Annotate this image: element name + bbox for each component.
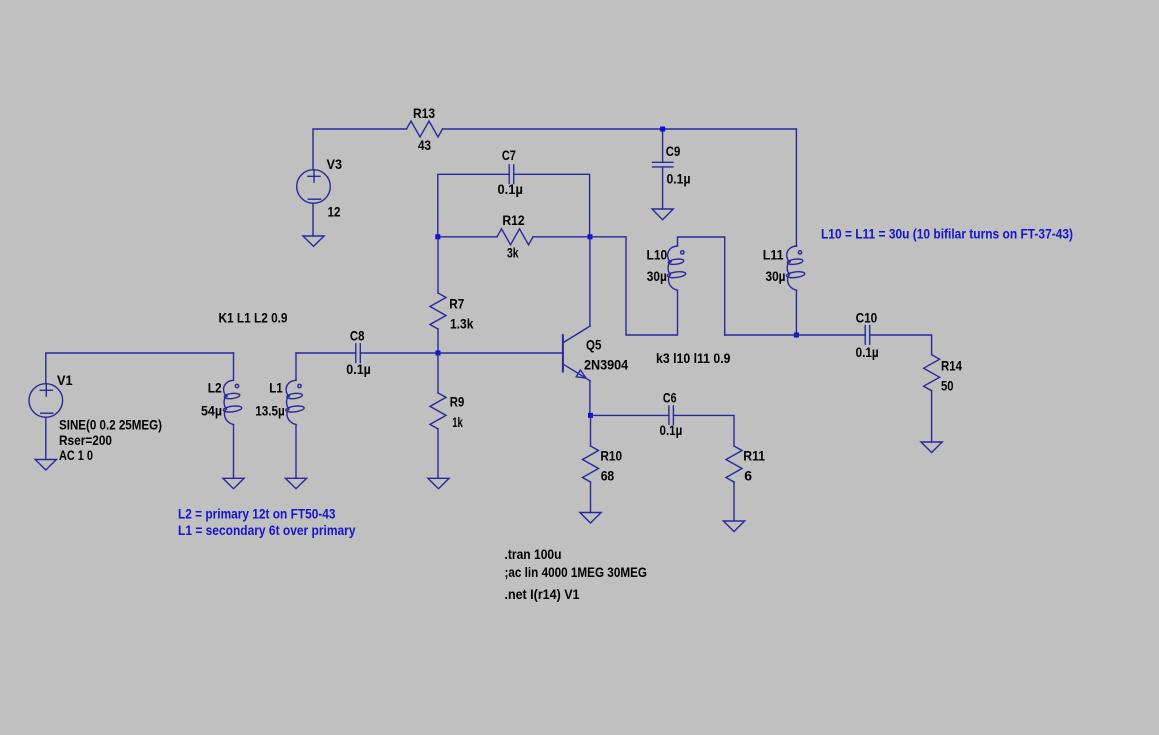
capacitor C10	[865, 326, 870, 345]
svg-text:L2: L2	[208, 380, 222, 396]
wire: base junction to R9	[437, 353, 439, 393]
svg-text:R7: R7	[449, 295, 464, 311]
svg-text:R14: R14	[941, 358, 962, 374]
wire: junction to R12	[438, 236, 497, 238]
wire: L1 to ground	[295, 425, 297, 479]
svg-text:12: 12	[328, 203, 341, 219]
wire: C9 to ground	[662, 167, 664, 209]
ground (V1)	[35, 460, 56, 471]
wire: out bus to C10	[725, 334, 866, 336]
svg-text:L11: L11	[763, 246, 784, 262]
svg-text:C10: C10	[856, 310, 878, 326]
svg-text:SINE(0 0.2 25MEG): SINE(0 0.2 25MEG)	[59, 417, 162, 433]
resistor R12	[497, 229, 533, 245]
resistor R13	[407, 121, 443, 137]
svg-text:L1 = secondary 6t over primary: L1 = secondary 6t over primary	[178, 522, 356, 538]
wire: emitter node to R10	[590, 415, 592, 446]
inductor L11	[786, 246, 805, 290]
wire: C8 to base	[360, 352, 563, 354]
wire: R9 to ground	[437, 429, 439, 478]
svg-text:54µ: 54µ	[201, 402, 222, 418]
svg-text:.tran 100u: .tran 100u	[505, 546, 562, 562]
svg-text:1k: 1k	[452, 414, 463, 430]
wire: R12 to collector junction	[533, 236, 590, 238]
svg-text:;ac lin 4000 1MEG 30MEG: ;ac lin 4000 1MEG 30MEG	[505, 564, 648, 580]
junction: emitter node	[588, 413, 593, 418]
wire: V3 to ground	[312, 203, 314, 236]
svg-text:6: 6	[744, 468, 752, 484]
svg-text:0.1µ: 0.1µ	[660, 422, 683, 438]
svg-text:R9: R9	[450, 394, 465, 410]
wire: V1 to ground	[45, 417, 47, 459]
ground (V3)	[303, 236, 324, 246]
wire: L10 top to out bus	[678, 237, 725, 335]
ground (L2)	[223, 478, 244, 488]
svg-text:V1: V1	[57, 372, 73, 388]
ground (R14)	[921, 442, 942, 453]
svg-text:L10: L10	[647, 246, 668, 262]
wire: C7 right loop	[514, 174, 590, 237]
svg-text:0.1µ: 0.1µ	[667, 171, 691, 187]
wire: V3 top corner to R13	[313, 129, 407, 170]
wire: collector node to L10 bottom	[590, 237, 678, 335]
ground (C9)	[652, 209, 673, 220]
svg-text:30µ: 30µ	[647, 268, 667, 284]
svg-text:50: 50	[941, 378, 954, 394]
wire: C7 left loop	[438, 174, 509, 237]
wire: R10 to ground	[590, 482, 592, 513]
ground (R9)	[428, 478, 449, 488]
wire: collector	[589, 237, 591, 326]
wire: R7 to base junction	[437, 329, 439, 353]
svg-text:43: 43	[418, 137, 431, 153]
svg-text:1.3k: 1.3k	[450, 315, 474, 331]
svg-text:C8: C8	[350, 327, 365, 343]
wire: L1 to C8	[296, 352, 356, 354]
svg-text:.net I(r14) V1: .net I(r14) V1	[505, 586, 580, 602]
svg-text:C6: C6	[663, 390, 677, 406]
wire: C6 to R11	[673, 415, 734, 446]
ground (R10)	[580, 513, 601, 524]
wire: emitter	[589, 381, 591, 416]
inductor L10	[667, 246, 686, 290]
wire: top bus to C9	[662, 129, 664, 162]
svg-text:0.1µ: 0.1µ	[346, 361, 371, 377]
junction: base node	[436, 351, 441, 356]
voltage source V3	[297, 170, 331, 204]
svg-text:Rser=200: Rser=200	[59, 432, 112, 448]
svg-text:68: 68	[601, 468, 615, 484]
svg-text:K1 L1 L2 0.9: K1 L1 L2 0.9	[219, 310, 288, 326]
svg-text:Q5: Q5	[586, 337, 602, 353]
voltage source V1	[29, 384, 63, 418]
capacitor C9	[653, 162, 673, 167]
resistor R10	[583, 446, 599, 482]
wire: R13 to top bus right corner	[443, 128, 797, 130]
junction: R12 left	[435, 234, 440, 239]
svg-text:R13: R13	[413, 105, 435, 121]
wire: C10 to R14	[870, 335, 932, 355]
wire: L1 top stub	[295, 353, 297, 380]
resistor R7	[430, 293, 446, 329]
capacitor C8	[356, 344, 361, 363]
wire: top bus to L11	[795, 129, 797, 246]
wire: L2 to ground	[233, 425, 235, 479]
svg-text:0.1µ: 0.1µ	[856, 344, 879, 360]
svg-text:13.5µ: 13.5µ	[255, 402, 285, 418]
transistor Q5	[563, 326, 590, 381]
resistor R11	[726, 446, 742, 482]
svg-text:C7: C7	[502, 147, 516, 163]
wire: R11 to ground	[733, 482, 735, 521]
svg-text:L10 = L11 = 30u (10 bifilar tu: L10 = L11 = 30u (10 bifilar turns on FT-…	[821, 226, 1073, 242]
svg-text:k3 l10 l11 0.9: k3 l10 l11 0.9	[656, 350, 731, 366]
capacitor C6	[669, 406, 674, 424]
svg-text:R11: R11	[743, 448, 765, 464]
resistor R9	[430, 393, 446, 429]
svg-text:L1: L1	[269, 380, 283, 396]
inductor L2	[223, 380, 242, 424]
wire: L2 top stub	[233, 353, 235, 380]
wire: L11 to out bus	[795, 290, 797, 335]
svg-text:L2 = primary 12t on FT50-43: L2 = primary 12t on FT50-43	[178, 506, 336, 522]
capacitor C7	[509, 165, 514, 184]
wire: emitter to C6	[591, 414, 669, 416]
ground (L1)	[285, 478, 306, 488]
junction: top bus at C9	[660, 127, 665, 132]
wire: V1 to L2	[46, 353, 234, 384]
inductor L1	[286, 380, 305, 424]
svg-text:3k: 3k	[507, 245, 519, 261]
svg-text:2N3904: 2N3904	[584, 357, 628, 373]
svg-text:R10: R10	[600, 448, 622, 464]
ground (R11)	[723, 521, 744, 532]
junction: R12 right / collector node	[588, 234, 593, 239]
svg-text:C9: C9	[666, 143, 681, 159]
wire: R12 junction to R7	[437, 237, 439, 293]
junction: L11 bottom	[794, 333, 799, 338]
svg-text:AC 1 0: AC 1 0	[59, 447, 93, 463]
svg-text:30µ: 30µ	[766, 268, 786, 284]
wire: R14 to ground	[931, 391, 933, 442]
svg-text:R12: R12	[502, 212, 524, 228]
svg-text:0.1µ: 0.1µ	[498, 181, 523, 197]
svg-text:V3: V3	[327, 156, 343, 172]
resistor R14	[924, 355, 940, 391]
